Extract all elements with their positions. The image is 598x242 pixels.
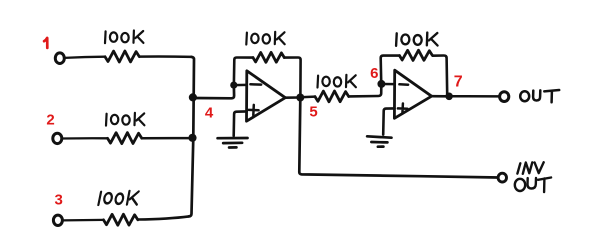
resistor R3 100K bbox=[104, 214, 138, 225]
wire: node 7 to OUT terminal bbox=[449, 95, 499, 98]
input terminal 1 bbox=[55, 53, 64, 64]
wire: node 6 to U2 minus input bbox=[381, 83, 394, 86]
U1 minus sign bbox=[250, 83, 261, 86]
wire: R3 to summing bus bbox=[138, 216, 189, 219]
node 7 junction dot bbox=[445, 93, 453, 101]
wire: U2 feedback left leg bbox=[381, 56, 400, 82]
wire: terminal 2 to R2 bbox=[62, 137, 108, 140]
resistor R6 100K (U2 feedback) bbox=[400, 50, 433, 60]
wire: R1 to summing bus bbox=[140, 55, 192, 58]
label INV bbox=[517, 162, 543, 174]
junction dot (bus / input 2) bbox=[188, 134, 196, 142]
resistor R2 100K bbox=[108, 133, 142, 144]
resistor R5 100K (interstage) bbox=[315, 91, 349, 102]
red node label 1 bbox=[44, 38, 47, 48]
label OUT bbox=[520, 90, 559, 102]
ground (U2) bbox=[367, 136, 391, 146]
wire: node 5 down branch to INV OUT bbox=[299, 100, 498, 178]
op-amp U1 bbox=[247, 71, 286, 121]
junction dot (U1 inverting input) bbox=[230, 82, 237, 89]
value label 100K (R2) bbox=[106, 113, 144, 126]
U1 plus sign bbox=[249, 105, 259, 115]
svg-text:3: 3 bbox=[55, 191, 63, 208]
node 4 junction dot bbox=[189, 93, 197, 101]
wire: U1 feedback right leg bbox=[284, 58, 300, 95]
U2 plus sign bbox=[398, 104, 408, 114]
svg-text:7: 7 bbox=[454, 74, 463, 91]
node 6 junction dot bbox=[377, 80, 385, 88]
input terminal 2 bbox=[53, 133, 62, 143]
value label 100K (R3) italic bbox=[98, 191, 139, 205]
resistor R1 100K bbox=[105, 51, 139, 62]
svg-text:5: 5 bbox=[309, 103, 317, 120]
wire: node 5 to R5 bbox=[300, 95, 315, 98]
wire: U2 plus input to ground bbox=[383, 108, 394, 134]
wire: junction to U1 minus input bbox=[234, 84, 247, 87]
wire: U1 plus input to ground bbox=[234, 111, 247, 135]
value label 100K (R4) bbox=[246, 32, 284, 45]
wire: U1 output stub bbox=[285, 96, 299, 99]
wire: terminal 3 to R3 bbox=[63, 219, 104, 222]
wire: R2 to summing bus bbox=[142, 137, 190, 140]
svg-text:2: 2 bbox=[46, 111, 54, 128]
label OUT (inverted output) bbox=[515, 178, 551, 193]
wire: vertical summing bus bbox=[189, 57, 194, 217]
ground (U1) bbox=[218, 138, 248, 148]
input terminal 3 bbox=[53, 215, 62, 225]
resistor R4 100K (U1 feedback) bbox=[253, 52, 284, 62]
U2 minus sign bbox=[399, 83, 408, 86]
wire: U2 output stub bbox=[432, 95, 447, 98]
wire: U2 feedback right leg bbox=[433, 56, 447, 95]
svg-text:4: 4 bbox=[205, 104, 214, 121]
value label 100K (R1) bbox=[105, 31, 143, 44]
OUT terminal bbox=[500, 92, 509, 102]
INV OUT terminal bbox=[498, 173, 506, 182]
wire: U1 feedback left leg bbox=[234, 58, 253, 84]
wire: terminal 1 to R1 bbox=[64, 57, 105, 58]
node 5 junction dot bbox=[296, 94, 304, 102]
value label 100K (R6) bbox=[396, 32, 437, 45]
svg-text:6: 6 bbox=[370, 65, 378, 82]
wire: R5 to node 6 bbox=[349, 86, 382, 96]
wire: node 4 to U1 inverting branch bbox=[193, 87, 234, 98]
value label 100K (R5) bbox=[318, 75, 356, 88]
op-amp U2 bbox=[394, 70, 431, 118]
